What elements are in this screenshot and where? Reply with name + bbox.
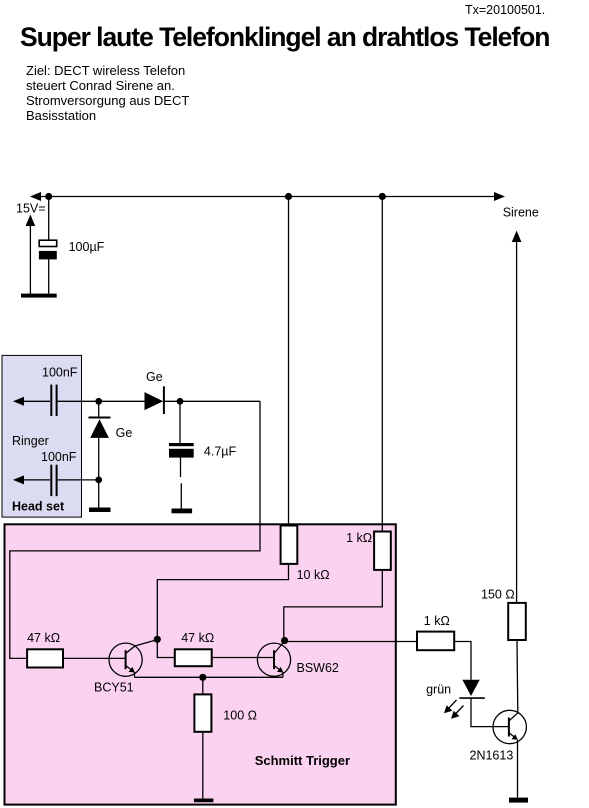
wire D2 to lower node [98, 438, 100, 480]
arrow right end of rail (to Sirene) [494, 192, 505, 201]
svg-text:1 kΩ: 1 kΩ [424, 614, 450, 628]
svg-text:Ge: Ge [146, 370, 163, 384]
transistor Q1 BCY51 [109, 640, 157, 678]
svg-text:100nF: 100nF [41, 450, 77, 464]
wire R4 to BSW62 base [212, 657, 274, 659]
capacitor C4 4.7uF top plate [169, 443, 194, 446]
wire rail to C1 [48, 197, 50, 241]
node emitter R5 [199, 674, 206, 681]
svg-text:100µF: 100µF [69, 240, 105, 254]
resistor R2 1k [374, 532, 391, 570]
svg-text:2N1613: 2N1613 [470, 749, 514, 763]
wire R2 to BSW62 collector node [284, 570, 383, 641]
svg-text:Ringer: Ringer [12, 434, 49, 448]
wire R6 to LED [454, 642, 471, 680]
node headset lower [95, 477, 102, 484]
wire ringer lower [16, 479, 99, 481]
description text [26, 63, 189, 123]
arrow sirene up [512, 231, 522, 243]
transistor Q3 2N1613 [493, 710, 526, 797]
arrow BSW62 emitter [277, 667, 283, 673]
resistor R5 100 [194, 694, 211, 731]
resistor R1 10k [281, 526, 298, 564]
svg-text:Stromversorgung aus DECT: Stromversorgung aus DECT [26, 93, 189, 108]
LED D3 cathode bar [459, 697, 484, 699]
svg-text:Basisstation: Basisstation [26, 108, 96, 123]
capacitor C4 4.7uF bottom plate [169, 449, 194, 458]
wire R5 to ground [202, 732, 204, 799]
arrow ringer upper left [13, 397, 24, 406]
arrow 15V up [26, 215, 36, 227]
svg-text:BSW62: BSW62 [297, 661, 339, 675]
wire rail to R 10k [288, 197, 290, 526]
wire node to diode D1 [99, 400, 145, 402]
LED D3 green triangle [462, 680, 479, 696]
diode D2 Ge vertical [89, 417, 111, 419]
wire node to C4 [179, 401, 181, 443]
svg-text:Head set: Head set [12, 500, 65, 514]
resistor R3 47k [27, 649, 63, 667]
transistor Q2 BSW62 [257, 641, 290, 677]
node BSW62 collector [281, 637, 288, 644]
wire LED to Q3 base [471, 698, 508, 727]
svg-text:grün: grün [426, 683, 451, 697]
ground C4 [172, 509, 193, 514]
capacitor C2 100nF upper [51, 385, 56, 416]
arrow Q3 emitter [512, 734, 518, 740]
svg-text:100 Ω: 100 Ω [223, 709, 257, 723]
headset box [2, 355, 82, 517]
wire R1 to BCY51 collector node [157, 564, 288, 639]
wire rail to R2 1k [381, 197, 383, 532]
svg-text:Tx=20100501.: Tx=20100501. [465, 3, 545, 17]
arrow left end of rail (15V supply) [30, 192, 41, 201]
svg-text:BCY51: BCY51 [94, 681, 134, 695]
wire sirene vertical [516, 238, 518, 603]
wire C4 to ground [180, 458, 182, 478]
diode D1 Ge horizontal [145, 392, 164, 410]
wire lower node to ground [98, 480, 100, 508]
arrow LED light 2 [455, 706, 464, 716]
svg-text:47 kΩ: 47 kΩ [27, 631, 60, 645]
svg-text:10 kΩ: 10 kΩ [297, 568, 330, 582]
wire R3 to BCY51 base [63, 657, 125, 659]
svg-text:Sirene: Sirene [503, 206, 539, 220]
capacitor C1 100uF minus plate [39, 251, 57, 260]
resistor R4 47k [175, 649, 212, 666]
svg-text:Schmitt Trigger: Schmitt Trigger [255, 753, 350, 768]
wire emitter rail [135, 676, 283, 678]
wire headset node down to diode D2 [98, 401, 100, 417]
svg-text:Ziel: DECT wireless Telefon: Ziel: DECT wireless Telefon [26, 63, 185, 78]
svg-text:Ge: Ge [116, 426, 133, 440]
resistor R7 150 [508, 603, 526, 640]
ground Q3 [509, 798, 528, 803]
ground R5 [194, 799, 214, 803]
ground headset [89, 508, 111, 513]
arrow BCY51 emitter [129, 667, 135, 673]
capacitor C3 100nF lower [51, 465, 56, 496]
node rail-1k [379, 193, 386, 200]
wire supply rail [36, 196, 500, 198]
node rail-C1 [45, 193, 52, 200]
wire collector node to R4 [157, 639, 175, 657]
resistor R6 1k [417, 632, 454, 651]
schmitt trigger box [5, 524, 396, 804]
svg-text:47 kΩ: 47 kΩ [181, 631, 214, 645]
node BCY51 collector [154, 636, 161, 643]
svg-text:1 kΩ: 1 kΩ [346, 531, 372, 545]
svg-text:Super laute Telefonklingel an: Super laute Telefonklingel an drahtlos T… [20, 22, 549, 52]
arrow ringer lower left [13, 475, 24, 484]
node after D1 [177, 398, 184, 405]
wire C1 to ground [48, 259, 50, 293]
svg-text:150 Ω: 150 Ω [481, 588, 515, 602]
wire diode D1 to corner [164, 400, 260, 402]
svg-text:4.7µF: 4.7µF [204, 445, 237, 459]
svg-text:steuert Conrad Sirene an.: steuert Conrad Sirene an. [26, 78, 175, 93]
wire 15V arrow line [29, 222, 31, 295]
node rail-10k [285, 193, 292, 200]
node headset upper [95, 398, 102, 405]
wire from D1 node into schmitt box [10, 401, 260, 658]
wire ringer upper [16, 400, 99, 402]
svg-text:100nF: 100nF [42, 366, 78, 380]
wire BSW62 collector to R6 [285, 641, 417, 643]
arrow LED light 1 [448, 700, 457, 710]
capacitor C1 100uF plus plate [39, 240, 57, 246]
wire R7 to Q3 collector [516, 640, 519, 712]
wire node to R5 [202, 677, 204, 694]
svg-text:15V=: 15V= [16, 202, 46, 216]
ground supply [21, 294, 57, 298]
